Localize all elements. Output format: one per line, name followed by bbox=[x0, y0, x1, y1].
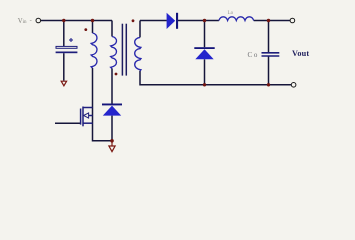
svg-text:in: in bbox=[23, 20, 27, 25]
svg-text:-: - bbox=[30, 17, 32, 24]
svg-text:C o: C o bbox=[248, 51, 258, 59]
svg-text:Vout: Vout bbox=[292, 49, 309, 58]
svg-text:Lo: Lo bbox=[228, 11, 234, 16]
